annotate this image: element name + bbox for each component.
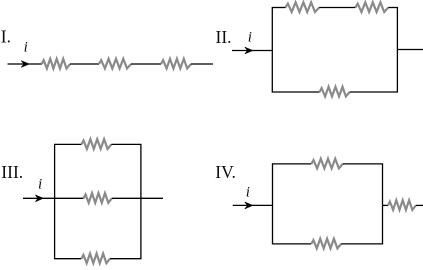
circuit I resistor R1: [42, 59, 70, 69]
circuit IV wire: top-left segment: [272, 163, 311, 165]
circuit III resistor R1 (top branch): [81, 139, 111, 149]
circuit II resistor R2 (top branch): [355, 2, 388, 12]
circuit IV node: right junction / right side of parallel loop: [382, 164, 384, 244]
circuit III resistor R3 (bottom branch): [81, 254, 110, 264]
svg-text:II.: II.: [216, 27, 232, 47]
circuit IV current direction arrowhead: [245, 202, 253, 209]
circuit I wire: R2 to R3: [131, 63, 161, 65]
svg-text:i: i: [38, 176, 42, 192]
circuit II wire: input with current arrow: [232, 50, 272, 52]
circuit I current direction arrowhead: [21, 61, 29, 68]
circuit II wire: bottom-right segment: [350, 91, 398, 93]
svg-text:I.: I.: [1, 27, 11, 47]
circuit III wire: bottom-left segment: [54, 258, 81, 260]
circuit III node: right junction / right side of parallel loop: [140, 144, 142, 258]
circuit III current direction arrowhead: [35, 195, 43, 202]
circuit II resistor R1 (top branch): [286, 2, 320, 12]
circuit III resistor R2 (middle branch): [84, 193, 112, 203]
circuit III wire: input with current arrow, through to middle resistor: [23, 197, 84, 199]
circuit I wire: output: [191, 63, 213, 65]
svg-text:i: i: [24, 40, 28, 56]
circuit IV wire: bottom-left segment: [272, 243, 311, 245]
circuit II current direction arrowhead: [245, 47, 253, 54]
circuit III wire: bottom-right segment: [110, 258, 142, 260]
circuit II wire: bottom-left segment: [272, 91, 320, 93]
circuit III wire: top-left segment: [54, 143, 81, 145]
circuit IV wire: right junction to series resistor: [383, 204, 389, 206]
circuit IV resistor R3 (series output): [388, 200, 416, 210]
circuit II wire: output: [397, 49, 423, 51]
circuit II node: right junction / right side of parallel loop: [396, 8, 398, 93]
circuit II wire: top-left segment: [272, 7, 286, 9]
circuit IV wire: input with current arrow: [233, 204, 273, 206]
circuit III wire: top-right segment: [111, 143, 141, 145]
circuit IV wire: bottom-right segment: [341, 243, 383, 245]
circuit I resistor R2: [99, 59, 131, 69]
svg-text:i: i: [248, 29, 252, 45]
circuit I wire: R1 to R2: [70, 63, 99, 65]
svg-text:III.: III.: [1, 162, 23, 182]
circuit III wire: middle resistor to output: [112, 197, 163, 199]
svg-text:i: i: [246, 185, 250, 201]
circuit IV wire: output: [416, 204, 423, 206]
circuit II resistor R3 (bottom branch): [320, 87, 350, 97]
circuit I wire: input with current arrow: [8, 63, 42, 65]
svg-text:IV.: IV.: [215, 162, 236, 182]
circuit II wire: top-right segment: [388, 7, 398, 9]
circuit I resistor R3: [161, 59, 191, 69]
circuit IV node: left junction / left side of parallel loop: [272, 164, 274, 244]
circuit II node: left junction / left side of parallel loop: [271, 8, 273, 93]
circuit II wire: between top resistors: [319, 7, 355, 9]
circuit IV wire: top-right segment: [343, 163, 383, 165]
circuit III node: left junction / left side of parallel loop: [54, 144, 56, 258]
circuit IV resistor R1 (top branch): [311, 159, 343, 169]
circuit IV resistor R2 (bottom branch): [311, 239, 341, 249]
